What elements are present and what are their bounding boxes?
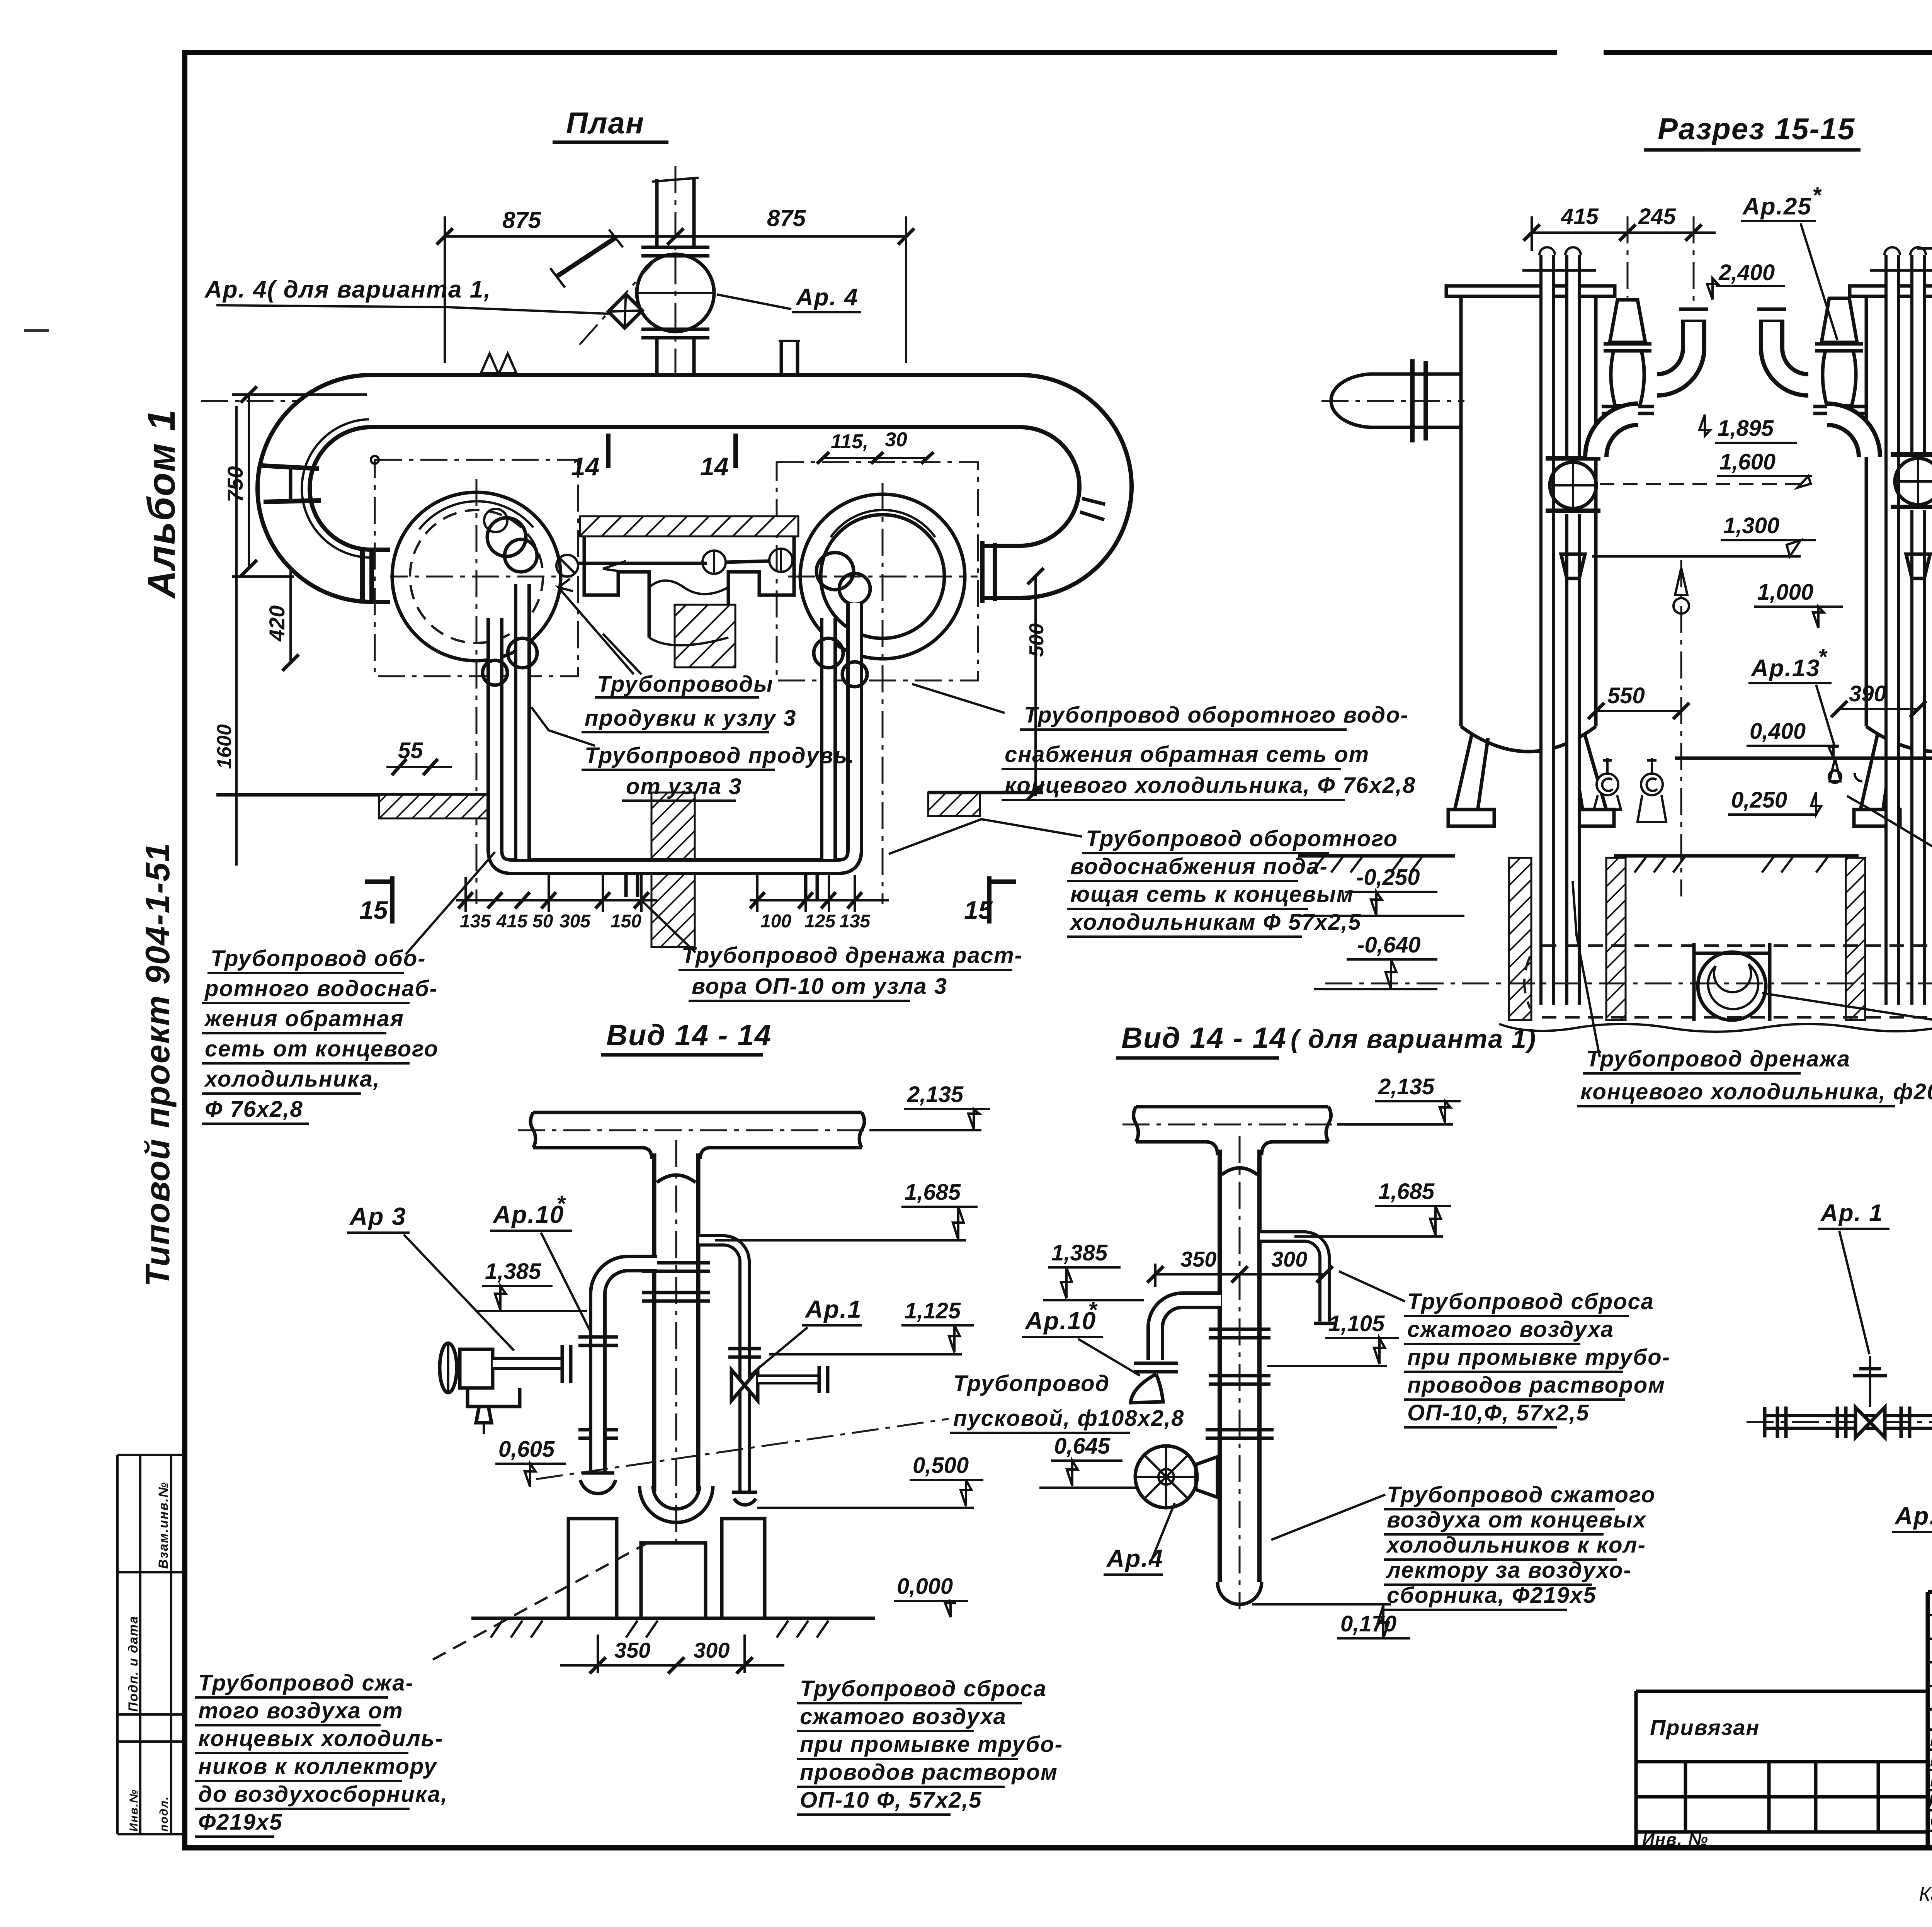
svg-text:Трубопровод оборотного водо-: Трубопровод оборотного водо- — [1024, 702, 1409, 728]
svg-text:1,685: 1,685 — [905, 1180, 961, 1205]
drain stubs — [624, 875, 628, 897]
lever of variant valve — [556, 238, 615, 277]
center leader texts — [585, 672, 855, 799]
svg-text:15: 15 — [359, 896, 388, 924]
left vessel skirt legs — [1448, 733, 1614, 826]
svg-text:концевых холодиль-: концевых холодиль- — [198, 1726, 443, 1751]
svg-text:воздуха от концевых: воздуха от концевых — [1387, 1507, 1647, 1532]
centerline left vessel — [476, 479, 478, 904]
svg-text:сжатого воздуха: сжатого воздуха — [800, 1704, 1007, 1729]
left elbow variant — [1155, 1300, 1221, 1360]
svg-text:30: 30 — [885, 429, 907, 451]
svg-text:Ар. 4: Ар. 4 — [795, 284, 859, 311]
svg-text:Ст.инж.: Ст.инж. — [1930, 1812, 1932, 1830]
valve Ar.1 on branch — [728, 1349, 828, 1401]
svg-text:Разрез 15-15: Разрез 15-15 — [1658, 112, 1855, 146]
svg-text:1,600: 1,600 — [1719, 449, 1776, 475]
svg-text:Н.контр.: Н.контр. — [1929, 1792, 1932, 1810]
svg-text:при промывке трубо-: при промывке трубо- — [1407, 1345, 1670, 1370]
labels Ar over valves — [1820, 1200, 1932, 1226]
text: air pipe right lower — [1386, 1482, 1656, 1608]
svg-text:750: 750 — [223, 466, 247, 502]
wire: main run with right U-bend — [369, 401, 1105, 572]
svg-text:1,125: 1,125 — [905, 1298, 961, 1323]
dim 115 30 — [823, 457, 927, 459]
text: blow-down right — [1407, 1289, 1670, 1425]
bend miter joint band — [262, 466, 319, 469]
svg-text:концевого холодильника, Ф 76х: концевого холодильника, Ф 76х2,8 — [1005, 773, 1416, 798]
svg-text:100: 100 — [760, 911, 791, 932]
svg-text:ОП-10 Ф, 57х2,5: ОП-10 Ф, 57х2,5 — [800, 1788, 982, 1813]
svg-text:390: 390 — [1849, 681, 1886, 706]
valve 1 — [1853, 1356, 1887, 1437]
dim 350 300 below — [597, 1634, 599, 1673]
svg-text:сеть от концевого: сеть от концевого — [205, 1036, 439, 1061]
svg-text:холодильников к кол-: холодильников к кол- — [1386, 1532, 1646, 1558]
center drain cock with stem — [1680, 560, 1682, 896]
svg-text:при промывке трубо-: при промывке трубо- — [800, 1732, 1063, 1757]
bottom dim chain — [456, 899, 657, 901]
svg-text:Рук.гр.: Рук.гр. — [1930, 1772, 1932, 1790]
svg-text:Подп. и дата: Подп. и дата — [126, 1616, 141, 1712]
svg-text:Инв.№: Инв.№ — [128, 1789, 140, 1832]
svg-text:*: * — [1812, 183, 1822, 208]
ceiling slab — [531, 1112, 864, 1148]
left vessel lid — [1446, 286, 1615, 296]
svg-text:проводов раствором: проводов раствором — [800, 1760, 1058, 1785]
dim 415 245 — [1532, 231, 1716, 234]
drain pit center — [1692, 943, 1696, 1021]
svg-text:ротного водоснаб-: ротного водоснаб- — [204, 976, 438, 1001]
left elbow and drop — [598, 1264, 657, 1472]
svg-text:245: 245 — [1638, 204, 1676, 229]
ball valve on internal pipe — [1546, 456, 1600, 461]
svg-text:Альбом 1: Альбом 1 — [140, 409, 183, 599]
svg-text:500: 500 — [1026, 623, 1048, 657]
linked stamp table — [1636, 1691, 1928, 1848]
signature table grid — [1928, 1592, 1932, 1848]
pedestals — [568, 1519, 765, 1618]
svg-text:2,135: 2,135 — [907, 1082, 964, 1107]
svg-text:Ар. 1: Ар. 1 — [1820, 1200, 1883, 1226]
union circles — [508, 638, 537, 668]
left vessel shell — [1461, 296, 1596, 752]
safety valve right with blowoff — [1757, 298, 1869, 457]
svg-text:50: 50 — [532, 911, 553, 932]
section mark 14-14 — [606, 434, 611, 468]
svg-text:ОП-10,Ф, 57х2,5: ОП-10,Ф, 57х2,5 — [1407, 1400, 1590, 1425]
scan gap in top border — [1557, 47, 1604, 58]
svg-text:1,105: 1,105 — [1328, 1311, 1385, 1336]
dim 55 — [386, 766, 452, 768]
text: blow-down pipe (bottom right) — [800, 1676, 1063, 1813]
svg-text:300: 300 — [1271, 1247, 1307, 1271]
handwheel valve — [1135, 1446, 1197, 1508]
bottom leader text — [682, 943, 1023, 999]
centerline right vessel — [882, 483, 884, 904]
svg-text:135: 135 — [839, 911, 871, 932]
svg-text:( для варианта 1): ( для варианта 1) — [1291, 1024, 1536, 1054]
weld marks on pipe — [481, 354, 498, 373]
valve assembly Ar.3 — [440, 1343, 571, 1434]
svg-text:2,135: 2,135 — [1378, 1074, 1435, 1099]
svg-text:0,250: 0,250 — [1731, 787, 1787, 813]
title block outer — [1928, 1592, 1932, 1848]
svg-text:1,300: 1,300 — [1723, 513, 1779, 538]
svg-text:0,645: 0,645 — [1054, 1434, 1111, 1459]
svg-text:350: 350 — [614, 1638, 650, 1662]
svg-text:Трубопровод сброса: Трубопровод сброса — [800, 1676, 1047, 1701]
svg-text:Инв. №: Инв. № — [1642, 1830, 1709, 1849]
left vessel — [392, 492, 561, 661]
svg-text:55: 55 — [398, 738, 423, 763]
svg-text:Вид 14 - 14: Вид 14 - 14 — [606, 1019, 772, 1052]
svg-text:Трубопроводы: Трубопроводы — [597, 672, 774, 697]
svg-text:1,895: 1,895 — [1718, 416, 1774, 441]
right branch thin pipe — [699, 1240, 745, 1492]
right branch thin pipe — [1260, 1236, 1325, 1322]
pipe bottom return bowl — [639, 1486, 713, 1522]
svg-text:сборника, Ф219х5: сборника, Ф219х5 — [1387, 1583, 1597, 1608]
inventory side table — [117, 1455, 185, 1834]
svg-text:*: * — [1818, 645, 1828, 670]
svg-text:420: 420 — [265, 605, 289, 642]
svg-text:Ар.13: Ар.13 — [1750, 655, 1820, 682]
wall hatched strips — [216, 793, 496, 797]
svg-text:жения обратная: жения обратная — [204, 1006, 404, 1031]
dim 350 300 top — [1155, 1273, 1325, 1276]
svg-text:305: 305 — [560, 911, 591, 932]
svg-text:Трубопровод дренажа раст-: Трубопровод дренажа раст- — [682, 943, 1023, 968]
svg-text:снабжения обратная сеть от: снабжения обратная сеть от — [1005, 742, 1369, 767]
svg-text:проводов раствором: проводов раствором — [1407, 1373, 1665, 1398]
dashed skid rect right — [777, 462, 978, 680]
svg-text:холодильника,: холодильника, — [204, 1066, 380, 1092]
svg-text:*: * — [556, 1191, 566, 1216]
ground line with hatch — [471, 1617, 875, 1620]
svg-text:того воздуха от: того воздуха от — [198, 1698, 403, 1723]
svg-text:концевого холодильника, ф20: концевого холодильника, ф20 — [1580, 1079, 1932, 1104]
svg-text:Трубопровод сжа-: Трубопровод сжа- — [198, 1670, 414, 1696]
svg-text:вора ОП-10 от узла 3: вора ОП-10 от узла 3 — [692, 974, 947, 999]
pencil notes below frame — [1919, 1879, 1932, 1906]
svg-text:Карповская Рогов?: Карповская Рогов? — [1919, 1883, 1932, 1906]
slab tee transition — [641, 1148, 711, 1159]
right bend joint — [1082, 498, 1105, 504]
text: startup pipe — [953, 1371, 1184, 1431]
flange at right vessel entry — [980, 541, 985, 603]
svg-text:Типовой проект 904-1-51: Типовой проект 904-1-51 — [138, 842, 177, 1287]
trench walls hatched — [1509, 858, 1531, 1020]
signature rows text — [1929, 1711, 1932, 1850]
trench sump dashed — [1524, 946, 1932, 1017]
svg-text:до воздухосборника,: до воздухосборника, — [198, 1782, 448, 1807]
ground hatch — [1298, 854, 1932, 858]
svg-text:150: 150 — [611, 911, 641, 932]
svg-text:сжатого воздуха: сжатого воздуха — [1407, 1317, 1614, 1342]
variant valve (inclined) — [608, 294, 642, 328]
pipe flange rings — [578, 1263, 710, 1438]
svg-text:продувки к узлу 3: продувки к узлу 3 — [585, 706, 796, 731]
svg-text:Ар.10: Ар.10 — [492, 1201, 564, 1228]
svg-text:Трубопровод: Трубопровод — [953, 1371, 1110, 1396]
ceiling slab — [1134, 1107, 1331, 1142]
main horizontal pipe — [1765, 1061, 1932, 1422]
right vessel — [800, 494, 965, 659]
small drain valves bottom left — [1594, 758, 1862, 822]
main vertical pipe — [652, 1153, 701, 1492]
right vessel skirt legs — [1854, 733, 1932, 826]
svg-text:План: План — [566, 106, 645, 140]
fold mark at left paper edge — [24, 329, 49, 332]
dashed skid rect left — [375, 460, 578, 676]
svg-text:14: 14 — [571, 452, 599, 481]
internal pipes left vessel — [1522, 247, 1600, 1005]
svg-text:0,000: 0,000 — [897, 1574, 953, 1599]
svg-text:415: 415 — [496, 911, 528, 932]
small inline valves — [578, 562, 707, 565]
svg-text:Вид 14 - 14: Вид 14 - 14 — [1121, 1022, 1287, 1054]
svg-text:-0,640: -0,640 — [1357, 932, 1420, 958]
svg-text:14: 14 — [700, 452, 728, 481]
svg-text:Трубопровод обо-: Трубопровод обо- — [211, 946, 426, 971]
right leader text block 1 — [1005, 702, 1416, 798]
svg-text:Ф219х5: Ф219х5 — [198, 1810, 283, 1835]
svg-text:от узла 3: от узла 3 — [626, 774, 742, 799]
dim 500 right — [1034, 576, 1037, 796]
svg-text:лектору за воздухо-: лектору за воздухо- — [1386, 1558, 1632, 1583]
svg-text:-0,250: -0,250 — [1356, 865, 1420, 890]
svg-text:Трубопровод сжатого: Трубопровод сжатого — [1387, 1482, 1656, 1507]
svg-text:Трубопровод дренажа: Трубопровод дренажа — [1586, 1046, 1850, 1072]
safety valve left with blowoff — [1596, 300, 1708, 457]
right vessel lid — [1850, 286, 1932, 296]
bottom cut line — [1499, 1022, 1932, 1032]
svg-text:Взам.инв.№: Взам.инв.№ — [156, 1481, 171, 1569]
svg-text:300: 300 — [694, 1638, 730, 1662]
svg-text:Ар.4: Ар.4 — [1106, 1544, 1163, 1572]
valve Ar.4 top nozzle — [637, 178, 714, 375]
svg-text:Ар.10: Ар.10 — [1024, 1307, 1096, 1335]
svg-text:пусковой, ф108х2,8: пусковой, ф108х2,8 — [953, 1406, 1184, 1431]
right vessel shell — [1866, 296, 1932, 752]
svg-text:Привязан: Привязан — [1650, 1715, 1760, 1740]
centerline main pipe — [201, 400, 1043, 402]
svg-text:Трубопровод сброса: Трубопровод сброса — [1407, 1289, 1654, 1314]
svg-text:Ар. 4( для варианта 1,: Ар. 4( для варианта 1, — [204, 276, 491, 303]
svg-text:135: 135 — [460, 911, 491, 932]
svg-text:водоснабжения пода-: водоснабжения пода- — [1070, 854, 1328, 879]
text: air pipe to collector (bottom left) — [198, 1670, 448, 1835]
svg-text:875: 875 — [767, 205, 806, 231]
svg-text:Ар.25: Ар.25 — [1742, 193, 1812, 220]
svg-text:2,400: 2,400 — [1718, 260, 1775, 285]
svg-text:1,000: 1,000 — [1757, 580, 1813, 605]
svg-text:Трубопровод оборотного: Трубопровод оборотного — [1086, 826, 1398, 851]
main vertical pipe — [1218, 1150, 1262, 1582]
svg-text:415: 415 — [1561, 204, 1599, 229]
svg-text:1,685: 1,685 — [1378, 1179, 1435, 1204]
centerline top nozzle — [675, 166, 677, 410]
svg-text:875: 875 — [502, 207, 542, 233]
svg-text:115,: 115, — [831, 430, 868, 453]
flange at left vessel entry — [360, 549, 365, 604]
svg-text:0,500: 0,500 — [913, 1453, 969, 1478]
svg-text:125: 125 — [804, 911, 836, 932]
svg-text:Гл.спец.: Гл.спец. — [1930, 1751, 1932, 1769]
svg-text:Ар 3: Ар 3 — [349, 1202, 406, 1230]
left side nozzle of left vessel — [1331, 374, 1461, 427]
svg-text:350: 350 — [1180, 1247, 1216, 1271]
svg-text:0,400: 0,400 — [1750, 719, 1806, 744]
svg-text:Ар.35: Ар.35 — [1894, 1502, 1932, 1530]
dim 875-875 — [445, 235, 906, 238]
svg-text:Ар.1: Ар.1 — [804, 1295, 862, 1323]
svg-text:1600: 1600 — [213, 724, 236, 769]
svg-text:1,385: 1,385 — [1051, 1240, 1108, 1265]
svg-text:холодильникам Ф 57х2,5: холодильникам Ф 57х2,5 — [1069, 910, 1361, 935]
svg-text:Трубопровод продувь.: Трубопровод продувь. — [585, 743, 855, 768]
flange rings — [1206, 1329, 1274, 1438]
svg-text:подл.: подл. — [158, 1796, 170, 1832]
left leader text block — [204, 946, 439, 1122]
svg-text:550: 550 — [1607, 683, 1645, 708]
cone diffuser — [1561, 554, 1585, 578]
right leader text block 2 — [1069, 826, 1398, 935]
pipe flanges — [1765, 1136, 1932, 1438]
small stub on pipe — [780, 341, 783, 373]
internal pipes right vessel — [1870, 247, 1932, 1005]
svg-text:ющая сеть к концевым: ющая сеть к концевым — [1070, 882, 1354, 907]
svg-text:1,385: 1,385 — [485, 1259, 541, 1284]
drop pipes left — [495, 603, 855, 867]
left vertical dims — [248, 395, 250, 568]
svg-text:ников к коллектору: ников к коллектору — [198, 1754, 437, 1779]
dash leader to lower-left text — [433, 1538, 657, 1660]
compressor block between vessels — [580, 516, 798, 536]
svg-text:Ф 76х2,8: Ф 76х2,8 — [205, 1097, 303, 1122]
left U-bend into vessel — [284, 401, 390, 576]
svg-text:0,605: 0,605 — [498, 1437, 555, 1462]
svg-text:Нач.отд.: Нач.отд. — [1930, 1731, 1932, 1749]
annotation: drain of end cooler — [1580, 1046, 1932, 1104]
